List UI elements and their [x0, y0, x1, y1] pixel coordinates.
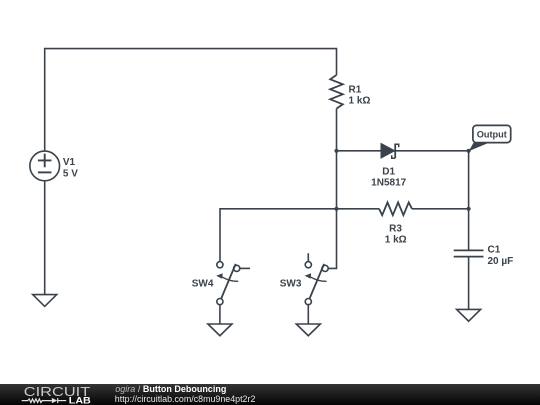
ground (SW4) — [208, 324, 232, 336]
label R1 1 kOhm — [349, 84, 371, 106]
wire: output junction down to C1 — [468, 151, 470, 251]
ground (C1) — [457, 309, 481, 321]
svg-text:R3: R3 — [389, 224, 402, 235]
svg-text:R1: R1 — [349, 84, 362, 95]
ground (V1) — [33, 295, 57, 307]
wire: top bus from V1 up, across, down to R1 — [45, 49, 337, 151]
node: junction R3 line / R1 column — [334, 207, 338, 211]
svg-text:1 kΩ: 1 kΩ — [385, 235, 407, 246]
wire: diode branch horizontal — [337, 150, 469, 152]
arrowhead SW4 — [216, 273, 223, 278]
capacitor C1 — [454, 250, 484, 256]
ground (SW3) — [296, 324, 320, 336]
wire: V1 bottom to ground — [44, 181, 46, 295]
svg-text:20 µF: 20 µF — [488, 256, 514, 267]
node: junction at diode anode — [334, 149, 338, 153]
wire: R3 junction down and left to SW3 — [328, 209, 336, 269]
wire: SW3 to ground — [307, 305, 309, 324]
wire: SW4 branch up and right to R3 — [220, 209, 379, 261]
label V1 5 V — [63, 157, 78, 179]
svg-text:1 kΩ: 1 kΩ — [349, 95, 371, 106]
diode D1 (schottky) — [381, 144, 399, 159]
node: junction R3 right / C1 column — [467, 207, 471, 211]
svg-text:LAB: LAB — [69, 395, 91, 405]
wire: diode junction down to R3 junction — [336, 151, 338, 209]
svg-text:5 V: 5 V — [63, 168, 78, 179]
voltage source V1 — [30, 151, 60, 181]
svg-text:http://circuitlab.com/c8mu9ne4: http://circuitlab.com/c8mu9ne4pt2r2 — [115, 394, 256, 404]
net flag Output — [469, 125, 511, 151]
resistor R1 — [330, 75, 343, 109]
wire: C1 to ground — [468, 257, 470, 310]
node: output junction — [467, 149, 471, 153]
svg-text:1N5817: 1N5817 — [371, 177, 406, 188]
arrowhead SW3 — [305, 273, 312, 278]
svg-text:SW3: SW3 — [280, 279, 302, 290]
wire: SW4 to ground — [219, 305, 221, 324]
switch SW3 — [305, 253, 328, 305]
wire: R3 to right junction — [412, 208, 469, 210]
svg-text:SW4: SW4 — [192, 279, 214, 290]
footer bar — [0, 384, 540, 405]
wire: R1 bottom to diode junction — [336, 109, 338, 151]
svg-text:ogira / Button Debouncing: ogira / Button Debouncing — [115, 384, 226, 394]
svg-text:C1: C1 — [488, 245, 501, 256]
label D1 1N5817 — [371, 166, 406, 188]
label C1 20 uF — [488, 245, 514, 267]
svg-text:D1: D1 — [382, 166, 395, 177]
resistor R3 — [379, 202, 412, 215]
switch SW4 — [217, 262, 250, 305]
label R3 1 kOhm — [385, 224, 407, 246]
logo squiggle (resistor + diode) — [22, 398, 66, 403]
svg-text:Output: Output — [477, 130, 507, 140]
svg-text:V1: V1 — [63, 157, 76, 168]
